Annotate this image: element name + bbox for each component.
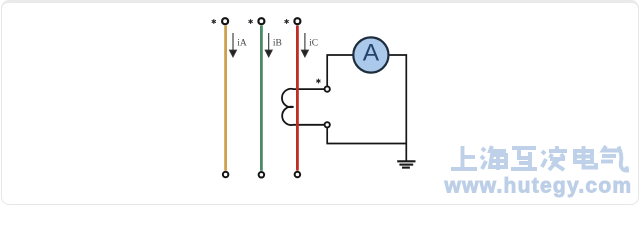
svg-text:iB: iB xyxy=(273,39,282,49)
svg-text:A: A xyxy=(363,39,380,66)
svg-text:iA: iA xyxy=(237,39,247,49)
svg-text:iC: iC xyxy=(309,39,318,49)
svg-text:www.hutegy.com: www.hutegy.com xyxy=(444,175,633,198)
